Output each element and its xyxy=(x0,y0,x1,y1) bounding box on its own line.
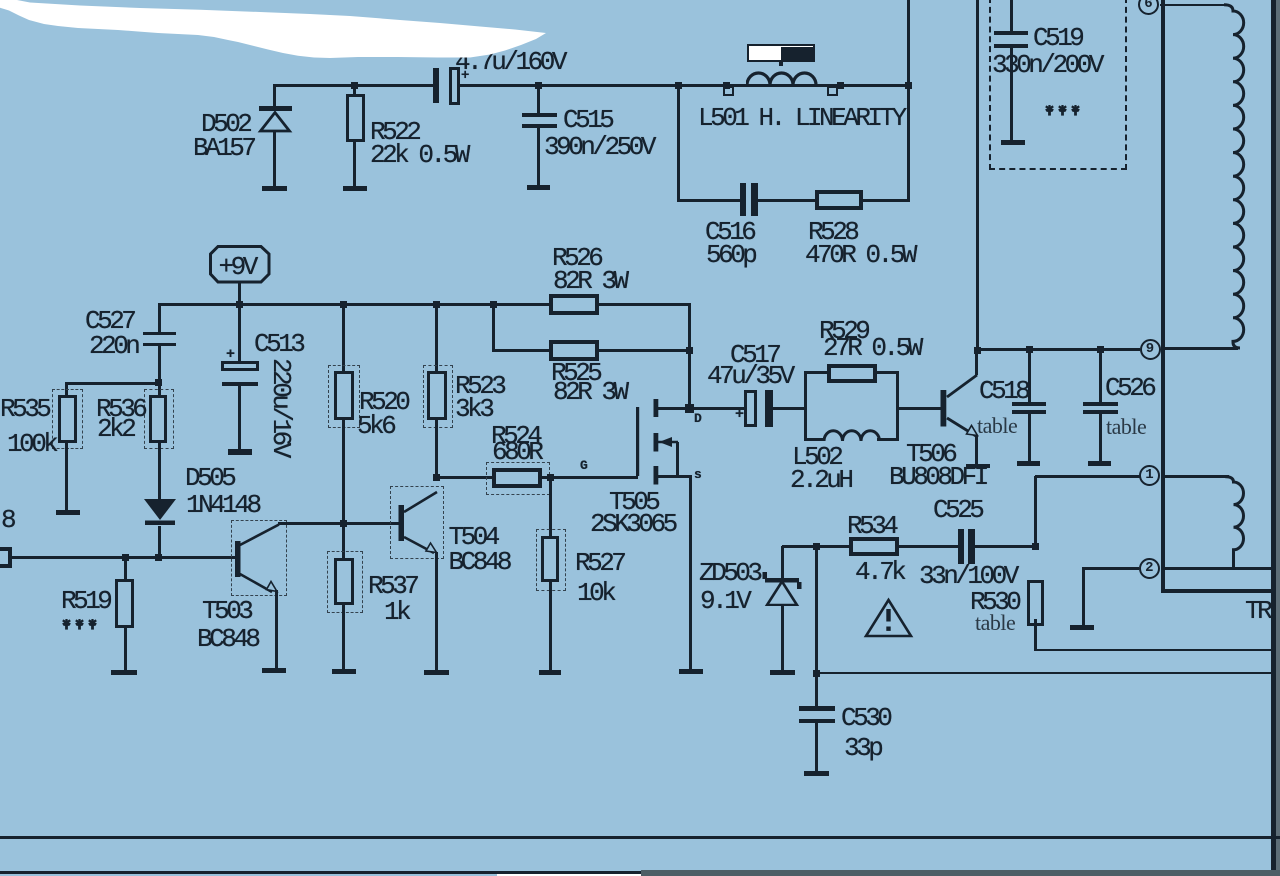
value 560p xyxy=(706,242,754,268)
capacitor C526 plate 1 xyxy=(1083,402,1118,406)
wire transformer core vertical xyxy=(1161,0,1165,592)
junction R519 top xyxy=(122,554,129,561)
value 3k3 xyxy=(455,396,491,422)
junction rail R520 xyxy=(340,301,347,308)
label TR5 xyxy=(1245,598,1280,624)
label R524 xyxy=(491,423,539,449)
inductor L502 coil xyxy=(823,428,883,442)
capacitor C530 plate 1 xyxy=(799,706,835,711)
capacitor C518 plate 1 xyxy=(1012,402,1046,406)
wire T506 emitter down xyxy=(975,435,978,464)
junction C515 top xyxy=(535,82,542,89)
label C515 xyxy=(563,107,611,133)
label R529 xyxy=(819,318,867,344)
value 2.2uH xyxy=(790,467,851,493)
warning triangle symbol xyxy=(863,597,915,639)
wire ZD503 to ground xyxy=(781,605,784,670)
value 390n/250V xyxy=(544,134,653,160)
value 82R 3W of R525 xyxy=(553,379,626,405)
wire C519 top stem xyxy=(1010,0,1013,31)
capacitor C525 plate 2 xyxy=(968,529,975,564)
wire T503 collector rail xyxy=(278,522,400,525)
value BU808DFI xyxy=(889,464,986,490)
capacitor C530 plate 2 xyxy=(799,719,835,723)
wire L502 left vertical xyxy=(804,371,807,441)
white scan artifact swoosh xyxy=(0,0,560,62)
label R520 xyxy=(359,389,407,415)
junction R520-R537 node xyxy=(340,520,347,527)
junction R522 top xyxy=(351,82,358,89)
L501 slider notch xyxy=(779,61,783,66)
junction C518 top xyxy=(1026,346,1033,353)
pin 1 xyxy=(1139,465,1160,486)
wire pin6 to winding xyxy=(1160,4,1228,7)
dashed box around C519 xyxy=(989,0,1127,170)
resistor R525 xyxy=(549,340,599,362)
wire D502 anode stem xyxy=(273,85,276,107)
ground T505 source xyxy=(679,669,703,674)
value 220u/16V (vertical) xyxy=(268,358,294,468)
wire R524 to gate xyxy=(542,476,638,479)
wire R536 to D505 xyxy=(158,443,161,500)
label ZD503 xyxy=(699,560,760,586)
connector stub pin 8 xyxy=(0,547,12,568)
resistor R526 xyxy=(549,294,599,315)
value 10k xyxy=(577,580,613,606)
note table of R530 xyxy=(975,612,1015,634)
selection box R536 xyxy=(144,389,174,449)
value 220n xyxy=(89,333,137,359)
label R530 xyxy=(970,589,1018,615)
bottom edge slate band xyxy=(641,870,1280,876)
transformer primary winding xyxy=(1224,0,1250,350)
wire ZD503 to R534 xyxy=(782,545,850,548)
wire C530 top stem xyxy=(815,673,818,707)
pin 6 xyxy=(1138,0,1159,15)
capacitor C527 plate 2 xyxy=(143,343,177,346)
ground C518 xyxy=(1017,461,1040,466)
bottom edge white sliver xyxy=(497,874,641,876)
wire R535 top stub xyxy=(65,383,68,396)
wire L502 left link xyxy=(804,438,825,441)
junction rail R523 xyxy=(433,301,440,308)
ground R535 xyxy=(56,510,80,515)
junction C527-R536 node xyxy=(155,379,162,386)
capacitor C515 plate 2 xyxy=(522,124,557,128)
resistor R523 xyxy=(427,371,447,420)
resistor R535 xyxy=(58,395,77,443)
selection box R527 xyxy=(536,529,566,591)
wire R523 top stub xyxy=(435,304,438,372)
zener diode ZD503 xyxy=(760,572,804,606)
transformer feedback winding xyxy=(1225,472,1251,570)
capacitor C516 plate 1 xyxy=(740,183,747,216)
junction drain node xyxy=(685,404,694,413)
wire D505 to bus xyxy=(158,526,161,558)
junction R527 top xyxy=(547,474,554,481)
wire C517 to L502 node xyxy=(773,407,806,410)
wire R522 top stub xyxy=(353,85,356,95)
label T505 xyxy=(609,489,657,515)
wire R520 top stub xyxy=(342,304,345,372)
wire pin1 right xyxy=(1161,475,1229,478)
label s xyxy=(694,468,701,481)
bottom frame line xyxy=(0,836,1280,839)
wire C518 top stem xyxy=(1028,350,1031,403)
wire L501 bottom mid segment xyxy=(757,199,816,202)
wire L501 left vertical xyxy=(677,85,680,201)
ground pin 2 xyxy=(1070,625,1094,630)
wire vertical bus x977 xyxy=(976,0,979,351)
wire R519 top stub xyxy=(124,557,127,580)
wire T503 emitter down xyxy=(275,590,278,668)
bottom edge line xyxy=(0,871,645,874)
label R525 xyxy=(551,360,599,386)
transistor T505 2SK3065 (MOSFET) xyxy=(634,396,704,488)
wire vertical bus x907 top xyxy=(907,0,910,86)
label C527 xyxy=(85,308,133,334)
wire ZD503 top stem xyxy=(781,546,784,580)
value BC848 of T504 xyxy=(449,549,510,575)
value 4.7u/160V xyxy=(455,49,564,75)
ground T503 emitter xyxy=(262,668,286,674)
label 8 xyxy=(1,507,13,533)
value 5k6 xyxy=(357,413,393,439)
diode D505 xyxy=(142,497,180,527)
selection box R520 xyxy=(328,365,360,428)
note table of C526 xyxy=(1106,416,1146,438)
wire C530 bottom stem xyxy=(815,723,818,771)
footnote marks in C519 box xyxy=(1044,103,1084,117)
ground R537 xyxy=(332,669,356,674)
label C526 xyxy=(1105,375,1153,401)
wire R527 top stub xyxy=(549,477,552,536)
capacitor C517 hollow plate xyxy=(744,390,757,427)
inductor L501 coil xyxy=(746,68,822,86)
value 9.1V xyxy=(700,588,748,614)
wire pin2 ground stem xyxy=(1082,568,1085,626)
wire C515 top stub xyxy=(537,85,540,113)
wire R527 bottom stub xyxy=(549,581,552,670)
wire C527 bottom stub xyxy=(158,346,161,383)
wire R526 right link xyxy=(598,303,691,306)
wire L501 right vertical xyxy=(907,85,910,201)
wire R536 top stub xyxy=(158,383,161,396)
polarity + of C513 xyxy=(226,347,234,362)
resistor R529 xyxy=(827,364,877,384)
label C530 xyxy=(841,705,889,731)
wire T505 drain lead xyxy=(658,407,690,410)
wire R530 bottom xyxy=(1034,619,1037,651)
note table of C518 xyxy=(977,415,1017,437)
label C518 xyxy=(979,378,1027,404)
label C525 xyxy=(933,497,981,523)
junction D505 bottom xyxy=(155,554,162,561)
label T503 xyxy=(202,598,250,624)
capacitor C516 plate 2 xyxy=(751,183,758,216)
label R536 xyxy=(96,396,144,422)
capacitor C525 plate 1 xyxy=(958,529,965,564)
value 100k xyxy=(7,431,55,457)
value 22k 0.5W xyxy=(370,142,467,168)
ground T504 emitter xyxy=(424,670,449,675)
ground D502 xyxy=(262,186,287,191)
page edge dark line xyxy=(1271,0,1276,876)
junction R530 top node xyxy=(1032,543,1039,550)
wire R535-R536 top link xyxy=(65,382,160,385)
wire vertical x689 to drain xyxy=(688,304,691,410)
wire R520 to collector node xyxy=(342,420,345,524)
value 4.7k xyxy=(855,559,903,585)
wire R530 loop bottom xyxy=(1034,649,1274,652)
selection box T503 xyxy=(231,520,287,596)
wire R535 bottom stub xyxy=(65,443,68,510)
label R528 xyxy=(808,219,856,245)
label R537 xyxy=(368,573,416,599)
resistor R530 xyxy=(1027,580,1044,626)
ground T506 emitter xyxy=(966,464,991,469)
pin 2 xyxy=(1139,558,1160,579)
value 330n/200V xyxy=(992,52,1101,78)
label C516 xyxy=(705,219,753,245)
L501 terminal square right xyxy=(827,86,838,96)
label R523 xyxy=(455,373,503,399)
wire x816 vertical xyxy=(815,546,818,674)
polarity + of C514 xyxy=(461,69,468,83)
junction C530 top xyxy=(813,670,820,677)
label C517 xyxy=(730,342,778,368)
wire drain to C517 xyxy=(690,407,745,410)
label D xyxy=(694,412,701,425)
wire R519 bottom stub xyxy=(124,627,127,671)
capacitor C519 plate 1 xyxy=(994,31,1027,35)
junction L501 right xyxy=(905,82,912,89)
polarity + of C517 xyxy=(735,407,743,422)
selection box R523 xyxy=(423,365,453,428)
wire R525 left vertical xyxy=(492,304,495,352)
ground C526 xyxy=(1088,461,1111,466)
capacitor C513 solid plate xyxy=(222,382,258,387)
junction L501 terminal right xyxy=(837,82,844,89)
capacitor C519 plate 2 xyxy=(994,44,1027,48)
value 33p xyxy=(844,735,880,761)
wire L502 right link xyxy=(877,438,899,441)
wire input bus xyxy=(11,556,236,559)
selection box R524 xyxy=(486,462,550,495)
ground C515 xyxy=(527,185,550,190)
wire transformer core horizontal xyxy=(1161,589,1280,594)
wire C518 bottom stem xyxy=(1028,414,1031,461)
selection box R535 xyxy=(52,389,83,449)
wire top rail from C514 to L501 right xyxy=(459,84,909,87)
value 680R xyxy=(492,439,540,465)
value 47u/35V xyxy=(707,363,792,389)
label R522 xyxy=(370,119,418,145)
wire node to T506 base xyxy=(896,407,943,410)
value 2k2 xyxy=(97,416,133,442)
wire T504 emitter down xyxy=(435,552,438,670)
L501 terminal square left xyxy=(723,86,734,96)
value 470R 0.5W xyxy=(805,242,914,268)
wire R537 xyxy=(342,523,345,559)
label R527 xyxy=(575,550,623,576)
diode D502 xyxy=(256,104,296,136)
label G xyxy=(580,459,587,472)
label D502 xyxy=(201,111,249,137)
value BA157 xyxy=(193,135,254,161)
label R535 xyxy=(0,396,48,422)
ground R522 xyxy=(343,186,367,191)
wire R523 to T504 collector xyxy=(435,420,438,479)
capacitor C526 plate 2 xyxy=(1083,410,1118,414)
transistor T504 xyxy=(392,486,452,558)
wire T506 collector up xyxy=(975,351,978,375)
wire R529 left link xyxy=(804,371,828,374)
selection box R537 xyxy=(327,551,363,613)
label D505 xyxy=(185,465,233,491)
resistor R527 xyxy=(541,536,559,582)
wire C515 bottom stub xyxy=(537,128,540,185)
label C519 xyxy=(1033,25,1081,51)
value BC848 of T503 xyxy=(197,626,258,652)
label R526 xyxy=(552,245,600,271)
capacitor C527 plate 1 xyxy=(143,332,177,335)
wire R525 right link xyxy=(598,349,691,352)
value 27R 0.5W xyxy=(823,335,920,361)
wire T505 source down xyxy=(689,475,692,670)
ground C513 xyxy=(228,449,252,455)
supply +9V symbol xyxy=(209,245,271,284)
resistor R528 xyxy=(815,190,864,210)
label T504 xyxy=(449,524,497,550)
value 82R 3W of R526 xyxy=(553,268,626,294)
resistor R522 xyxy=(346,94,365,142)
wire L501 bottom left segment xyxy=(677,199,741,202)
wire pin2 right xyxy=(1161,567,1274,570)
junction R525 right xyxy=(686,347,693,354)
label C513 xyxy=(254,331,302,357)
ground R519 xyxy=(111,670,137,675)
wire C513 top stub xyxy=(238,304,241,362)
wire +9V stem xyxy=(238,281,241,305)
wire top rail from D502 to C514 xyxy=(273,84,434,87)
capacitor C517 solid plate xyxy=(765,390,774,427)
junction rail C513 xyxy=(236,301,243,308)
wire C519 bottom stem xyxy=(1010,48,1013,140)
wire R537 bottom stub xyxy=(342,604,345,669)
capacitor C514 hollow plate xyxy=(449,67,460,105)
capacitor C518 plate 2 xyxy=(1012,410,1046,414)
wire C526 bottom stem xyxy=(1099,414,1102,461)
value 2SK3065 xyxy=(590,511,675,537)
value 33n/100V xyxy=(919,563,1016,589)
wire pin1 vertical to R530 xyxy=(1034,476,1037,547)
junction L501 terminal left xyxy=(723,82,730,89)
wire L502 right vertical xyxy=(896,371,899,441)
page edge grey strip xyxy=(1276,0,1280,876)
resistor R520 xyxy=(334,371,354,420)
label R519 xyxy=(61,588,109,614)
wire +9V rail xyxy=(158,303,550,306)
wire R522 bottom stub xyxy=(353,142,356,186)
footnote marks under R519 xyxy=(61,617,101,631)
label L502 xyxy=(792,444,840,470)
ground ZD503 xyxy=(770,670,795,675)
selection box T504 xyxy=(390,486,444,559)
wire C526 top stem xyxy=(1099,350,1102,403)
wire pin2 left xyxy=(1082,567,1139,570)
transistor T503 xyxy=(228,514,290,598)
junction collector node xyxy=(974,347,981,354)
wire R525 left link xyxy=(492,349,551,352)
label T506 xyxy=(906,441,954,467)
ground C519 xyxy=(1001,140,1025,145)
junction R534 left node xyxy=(813,543,820,550)
L501 slider indicator xyxy=(747,44,815,62)
wire R523 node to R524 xyxy=(435,476,493,479)
junction T504 collector node xyxy=(433,474,440,481)
wire bottom bus y673 xyxy=(816,672,1273,675)
wire pin1 left xyxy=(1035,475,1140,478)
resistor R534 xyxy=(849,537,899,557)
capacitor C514 solid plate xyxy=(433,68,439,103)
junction C526 top xyxy=(1097,346,1104,353)
wire pin9 to winding xyxy=(1162,347,1238,350)
value 1N4148 xyxy=(186,492,259,518)
wire L501 bottom right segment xyxy=(861,199,910,202)
resistor R524 xyxy=(492,468,542,488)
wire C513 bottom stub xyxy=(238,386,241,449)
L501 slider black half xyxy=(781,47,814,62)
label +9V xyxy=(219,254,255,280)
capacitor C513 hollow plate xyxy=(221,361,258,371)
wire R529 right link xyxy=(875,371,899,374)
wire R534 to C525 xyxy=(898,545,958,548)
wire C527 top stub xyxy=(158,303,161,333)
resistor R536 xyxy=(149,395,167,443)
transistor T506 xyxy=(936,368,996,452)
wire T505 source lead xyxy=(658,475,691,478)
pin 9 xyxy=(1140,339,1161,360)
ground R527 xyxy=(539,670,561,675)
ground C530 xyxy=(804,771,830,776)
value 1k xyxy=(384,599,408,625)
resistor R519 xyxy=(115,579,135,628)
label L501 H. LINEARITY xyxy=(698,105,904,131)
resistor R537 xyxy=(334,558,354,605)
wire C525 to R530 node xyxy=(974,545,1035,548)
wire D502 to ground xyxy=(273,130,276,186)
capacitor C515 plate 1 xyxy=(522,113,557,117)
junction rail R526 left xyxy=(490,301,497,308)
wire T505 body to source xyxy=(676,442,679,478)
label R534 xyxy=(847,513,895,539)
junction L501 left xyxy=(675,82,682,89)
wire collector rail to pin 9 xyxy=(976,348,1140,351)
